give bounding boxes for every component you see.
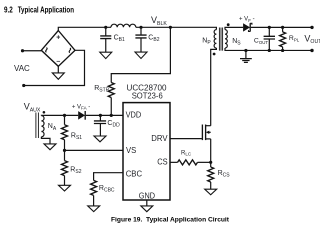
svg-text:DRV: DRV xyxy=(151,134,168,143)
svg-text:NP: NP xyxy=(202,38,211,47)
svg-text:CS: CS xyxy=(157,158,168,167)
svg-text:VS: VS xyxy=(126,146,137,155)
svg-text:NA: NA xyxy=(48,123,57,132)
svg-text:VAUX: VAUX xyxy=(24,102,41,114)
svg-text:GND: GND xyxy=(139,192,155,201)
svg-text:RCBC: RCBC xyxy=(99,185,115,194)
svg-text:Typical Application: Typical Application xyxy=(18,6,74,15)
svg-text:+ VF -: + VF - xyxy=(239,17,255,23)
svg-text:VBLK: VBLK xyxy=(151,15,167,27)
svg-text:RPL: RPL xyxy=(289,35,300,43)
svg-text:RS2: RS2 xyxy=(70,166,81,175)
svg-text:NS: NS xyxy=(232,38,241,47)
svg-text:CDD: CDD xyxy=(107,120,120,129)
svg-text:RCS: RCS xyxy=(218,170,231,179)
svg-text:VAC: VAC xyxy=(14,64,30,73)
svg-text:CB2: CB2 xyxy=(148,34,159,43)
svg-text:RLC: RLC xyxy=(181,150,192,156)
svg-text:–: – xyxy=(56,59,60,66)
svg-text:Figure 19. Typical Applicatio: Figure 19. Typical Application Circuit xyxy=(111,216,230,223)
svg-text:CBC: CBC xyxy=(126,169,142,178)
svg-text:VOUT: VOUT xyxy=(304,33,320,45)
svg-text:CB1: CB1 xyxy=(114,34,125,43)
svg-text:VDD: VDD xyxy=(126,111,142,120)
svg-text:+: + xyxy=(56,35,60,42)
svg-text:SOT23-6: SOT23-6 xyxy=(132,91,163,100)
svg-text:9.2: 9.2 xyxy=(4,6,13,15)
svg-text:+ VFA -: + VFA - xyxy=(72,104,90,110)
svg-text:RS1: RS1 xyxy=(71,132,82,141)
